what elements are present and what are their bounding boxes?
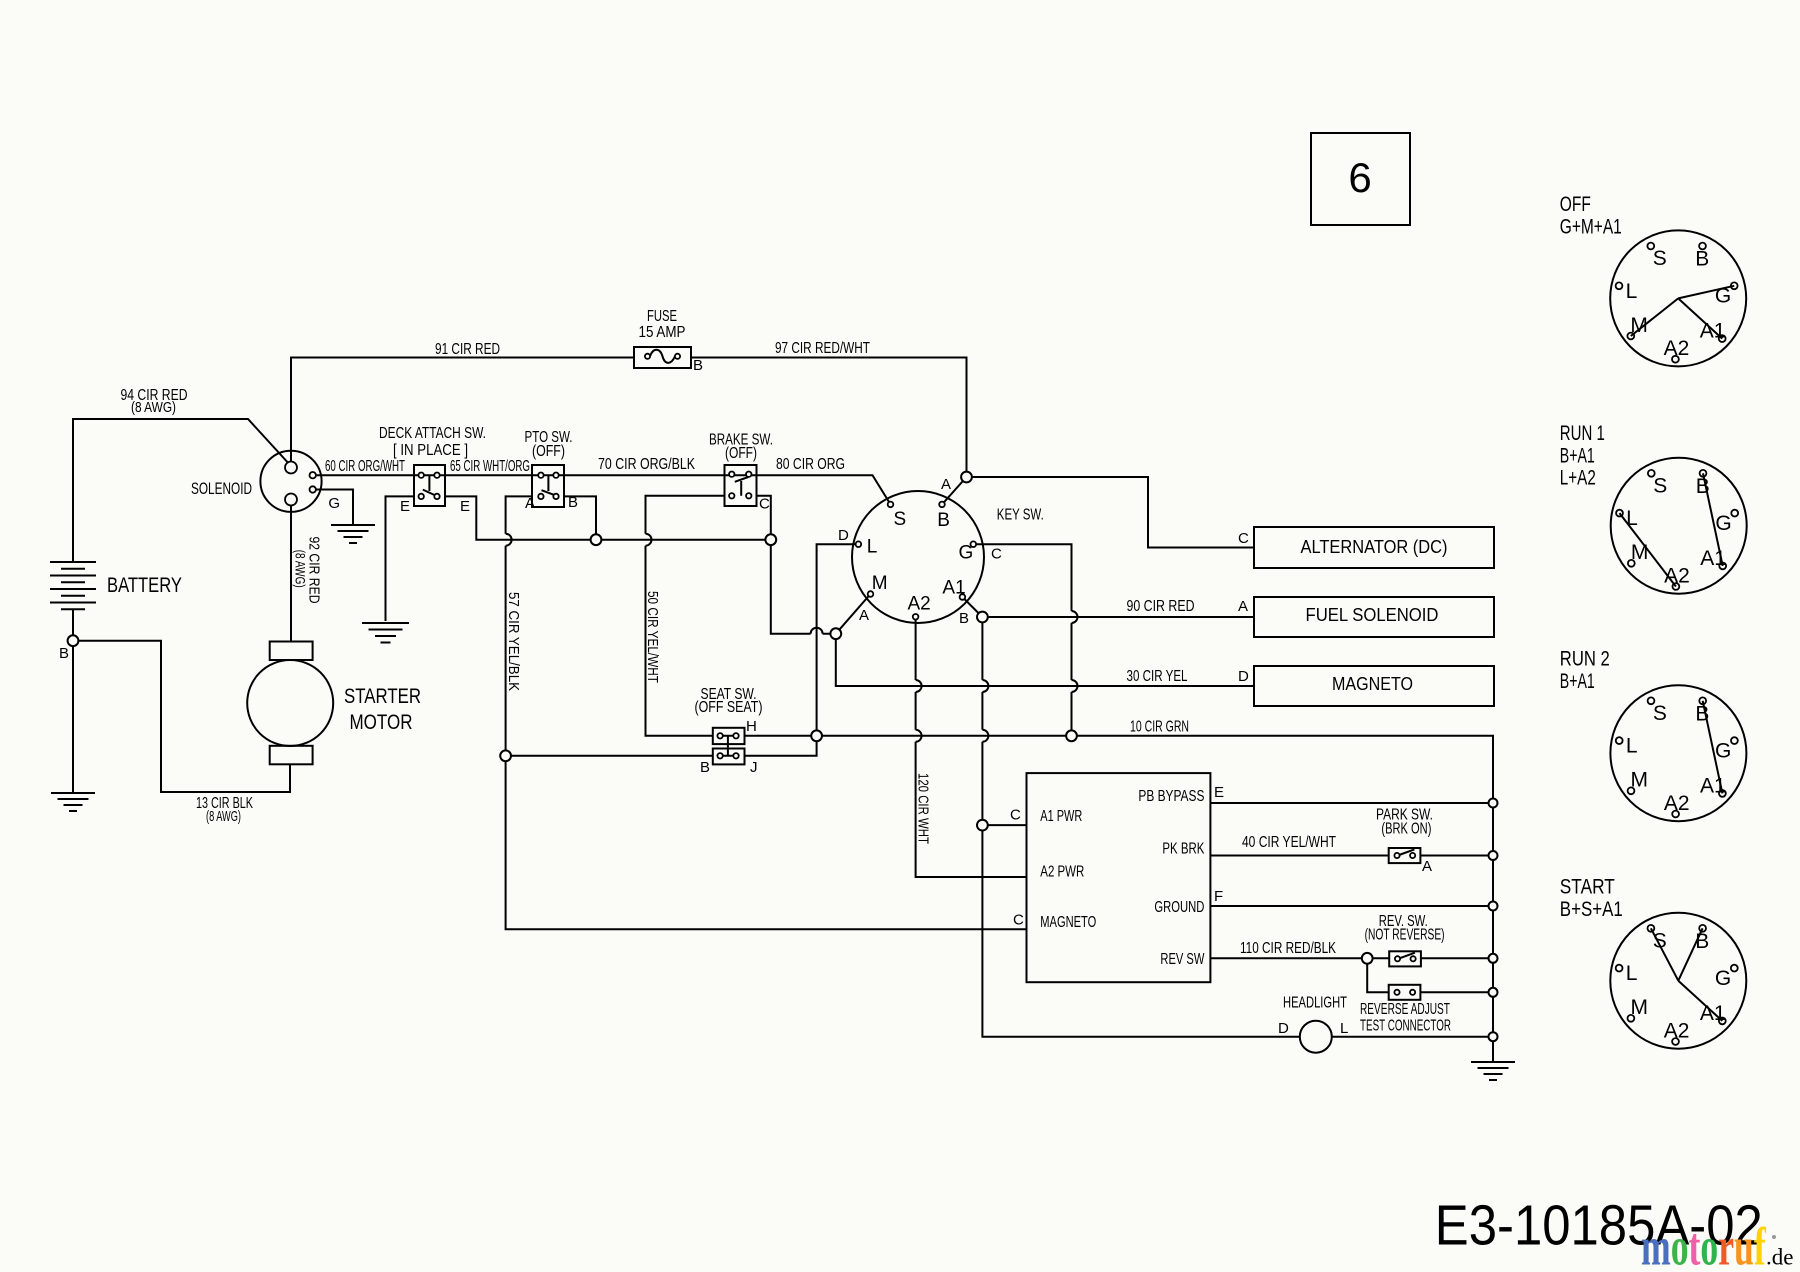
solenoid bbox=[260, 451, 321, 512]
svg-text:S: S bbox=[894, 509, 907, 530]
svg-text:FUSE: FUSE bbox=[647, 308, 677, 325]
wire main row 60/65/70/80 CIR to key S bbox=[313, 475, 891, 504]
svg-text:C: C bbox=[1238, 530, 1249, 547]
svg-text:L: L bbox=[867, 536, 878, 557]
svg-text:L: L bbox=[1626, 280, 1638, 303]
ground deck attach bbox=[362, 623, 409, 643]
svg-text:A: A bbox=[525, 495, 535, 512]
wire REV SW row / 110 CIR RED/BLK bbox=[1210, 957, 1389, 959]
ground solenoid G bbox=[331, 525, 375, 543]
wire solenoid G terminal to ground bbox=[313, 490, 353, 526]
svg-text:E: E bbox=[1214, 784, 1224, 801]
svg-text:A2: A2 bbox=[1664, 337, 1690, 360]
svg-text:motoruf: motoruf bbox=[1641, 1216, 1766, 1272]
key position OFF bbox=[1610, 230, 1746, 366]
fuse F1 15 AMP bbox=[634, 347, 691, 368]
svg-text:10 CIR GRN: 10 CIR GRN bbox=[1130, 719, 1189, 736]
wire key B to node A bbox=[942, 477, 967, 504]
svg-text:A1 PWR: A1 PWR bbox=[1040, 808, 1082, 825]
svg-text:A2: A2 bbox=[1664, 1019, 1690, 1042]
wire PK BRK row / 40 CIR YEL/WHT bbox=[1210, 855, 1388, 857]
wire deck attach E2 down to E-row bbox=[445, 496, 771, 539]
wire GROUND F row bbox=[1210, 905, 1493, 907]
svg-text:15 AMP: 15 AMP bbox=[639, 324, 686, 341]
wire key A2 / 120 CIR WHT to A2 PWR bbox=[916, 620, 1027, 878]
solenoid output terminals bbox=[310, 472, 316, 478]
node rev sw junction bbox=[1362, 953, 1373, 964]
svg-text:S: S bbox=[1653, 702, 1667, 725]
svg-text:120 CIR WHT: 120 CIR WHT bbox=[915, 773, 932, 844]
svg-text:MAGNETO: MAGNETO bbox=[1040, 914, 1096, 931]
svg-text:ALTERNATOR (DC): ALTERNATOR (DC) bbox=[1301, 537, 1448, 557]
svg-text:L+A2: L+A2 bbox=[1560, 467, 1596, 490]
svg-text:40 CIR YEL/WHT: 40 CIR YEL/WHT bbox=[1242, 834, 1336, 851]
svg-text:G: G bbox=[328, 495, 340, 512]
deck attach switch bbox=[414, 465, 445, 506]
svg-text:J: J bbox=[750, 759, 758, 776]
key position RUN 1 bbox=[1611, 458, 1747, 594]
svg-text:MOTOR: MOTOR bbox=[350, 711, 413, 734]
park switch bbox=[1389, 848, 1421, 863]
svg-text:RUN 1: RUN 1 bbox=[1560, 422, 1605, 445]
svg-text:REVERSE ADJUST: REVERSE ADJUST bbox=[1360, 1001, 1450, 1018]
svg-text:B: B bbox=[59, 645, 69, 662]
svg-text:90 CIR RED: 90 CIR RED bbox=[1127, 598, 1195, 615]
svg-text:L: L bbox=[1626, 962, 1638, 985]
svg-text:A2 PWR: A2 PWR bbox=[1040, 864, 1084, 881]
wire battery ground drop bbox=[72, 641, 74, 793]
svg-text:PK BRK: PK BRK bbox=[1162, 841, 1204, 858]
starter motor bbox=[270, 642, 313, 661]
wire A1 down to connector and headlight bbox=[982, 617, 1299, 1037]
svg-text:A: A bbox=[941, 476, 951, 493]
wire node A to alternator C bbox=[967, 477, 1255, 548]
wire seat B row bbox=[506, 755, 713, 757]
svg-text:M: M bbox=[1631, 541, 1649, 564]
page number box bbox=[1311, 133, 1410, 225]
svg-text:STARTER: STARTER bbox=[344, 685, 421, 708]
wire key L / D wire down to GRN bbox=[817, 544, 859, 736]
svg-text:TEST CONNECTOR: TEST CONNECTOR bbox=[1360, 1017, 1451, 1034]
svg-text:S: S bbox=[1653, 475, 1667, 498]
svg-text:C: C bbox=[1010, 807, 1021, 824]
node M junction bbox=[830, 628, 841, 639]
alternator box bbox=[1254, 527, 1494, 568]
svg-text:A: A bbox=[1422, 858, 1432, 875]
svg-text:(OFF): (OFF) bbox=[532, 443, 565, 460]
svg-text:D: D bbox=[1238, 668, 1249, 685]
svg-text:A2: A2 bbox=[1664, 792, 1690, 815]
svg-text:L: L bbox=[1626, 735, 1638, 758]
bus connector rings bbox=[1489, 799, 1498, 808]
wire PB BYPASS row bbox=[1210, 802, 1493, 804]
svg-text:(8 AWG): (8 AWG) bbox=[293, 550, 309, 588]
battery BT1 bbox=[50, 562, 96, 609]
svg-text:.de: .de bbox=[1766, 1244, 1793, 1269]
node A junction bbox=[961, 472, 972, 483]
wire key A1 diagonal to node bbox=[962, 597, 982, 617]
node GRN / L junction bbox=[811, 730, 822, 741]
svg-text:FUEL SOLENOID: FUEL SOLENOID bbox=[1306, 605, 1439, 625]
svg-text:(8 AWG): (8 AWG) bbox=[131, 399, 176, 416]
brake switch bbox=[725, 465, 757, 506]
svg-text:D: D bbox=[1278, 1020, 1289, 1037]
svg-text:B+A1: B+A1 bbox=[1560, 670, 1595, 693]
svg-text:57 CIR YEL/BLK: 57 CIR YEL/BLK bbox=[505, 592, 522, 691]
seat switch bbox=[713, 728, 745, 744]
svg-text:M: M bbox=[1630, 996, 1648, 1019]
node PTO B junction bbox=[591, 534, 602, 545]
svg-text:B+S+A1: B+S+A1 bbox=[1560, 898, 1623, 921]
svg-text:G: G bbox=[959, 543, 974, 564]
svg-text:A2: A2 bbox=[908, 594, 931, 615]
svg-text:PB BYPASS: PB BYPASS bbox=[1138, 788, 1204, 805]
wire 10 CIR GRN row to right bus bbox=[745, 736, 1494, 1062]
wire reverse adjust drop bbox=[1367, 958, 1389, 992]
svg-text:65 CIR WHT/ORG: 65 CIR WHT/ORG bbox=[450, 458, 530, 475]
svg-text:30 CIR YEL: 30 CIR YEL bbox=[1127, 668, 1188, 685]
svg-text:G+M+A1: G+M+A1 bbox=[1560, 215, 1622, 238]
svg-text:REV SW: REV SW bbox=[1160, 951, 1205, 968]
wire 91 CIR RED solenoid to fuse bbox=[291, 358, 634, 463]
svg-text:6: 6 bbox=[1348, 154, 1371, 201]
ground right bus bbox=[1471, 1062, 1515, 1080]
wire headlight right to bus bbox=[1332, 1036, 1493, 1038]
svg-text:50 CIR YEL/WHT: 50 CIR YEL/WHT bbox=[644, 591, 661, 683]
svg-text:A: A bbox=[859, 607, 869, 624]
wire 94 CIR RED from battery to solenoid bbox=[73, 419, 291, 562]
wire battery minus to node B bbox=[72, 609, 74, 641]
wire 92 CIR RED solenoid to starter bbox=[290, 506, 292, 642]
svg-text:C: C bbox=[759, 496, 770, 513]
key position RUN 2 bbox=[1610, 685, 1746, 821]
svg-text:M: M bbox=[1631, 769, 1649, 792]
svg-text:OFF: OFF bbox=[1560, 193, 1591, 216]
reverse adjust test connector bbox=[1389, 985, 1421, 1000]
svg-text:B: B bbox=[693, 357, 703, 374]
svg-text:(OFF SEAT): (OFF SEAT) bbox=[695, 699, 763, 716]
interlock module box bbox=[1027, 773, 1211, 982]
svg-text:(NOT REVERSE): (NOT REVERSE) bbox=[1365, 927, 1445, 944]
svg-text:G: G bbox=[1715, 967, 1731, 990]
node 90 CIR RED junction bbox=[977, 612, 988, 623]
node brake C junction bbox=[765, 534, 776, 545]
headlight lamp bbox=[1300, 1021, 1332, 1053]
wire deck attach E to ground bbox=[386, 496, 415, 621]
svg-text:MAGNETO: MAGNETO bbox=[1332, 674, 1413, 694]
svg-text:L: L bbox=[1626, 507, 1638, 530]
key switch bbox=[852, 491, 984, 623]
fuel solenoid box bbox=[1254, 597, 1494, 637]
svg-text:80 CIR ORG: 80 CIR ORG bbox=[776, 456, 845, 473]
wire 30 CIR YEL to magneto bbox=[836, 634, 1254, 686]
svg-text:HEADLIGHT: HEADLIGHT bbox=[1283, 995, 1347, 1012]
svg-text:E: E bbox=[460, 498, 470, 515]
wire key G to 10 CIR GRN bbox=[976, 544, 1072, 736]
svg-text:B: B bbox=[1695, 248, 1709, 271]
rev switch bbox=[1389, 951, 1421, 966]
key position START bbox=[1610, 913, 1746, 1049]
magneto box bbox=[1254, 666, 1494, 706]
svg-text:[ IN PLACE ]: [ IN PLACE ] bbox=[393, 442, 468, 459]
wire seat J riser bbox=[745, 736, 817, 756]
svg-text:M: M bbox=[872, 573, 888, 594]
svg-text:RUN 2: RUN 2 bbox=[1560, 648, 1610, 671]
svg-text:GROUND: GROUND bbox=[1154, 899, 1204, 916]
wire PTO A / 57 CIR YEL/BLK bbox=[506, 496, 1027, 929]
svg-text:BATTERY: BATTERY bbox=[107, 574, 182, 597]
wire 97 CIR RED/WHT fuse to node A bbox=[691, 358, 967, 478]
svg-text:SOLENOID: SOLENOID bbox=[191, 479, 252, 498]
svg-text:H: H bbox=[746, 718, 757, 735]
wire 13 CIR BLK battery to starter bbox=[73, 641, 290, 792]
svg-text:KEY SW.: KEY SW. bbox=[997, 507, 1044, 524]
svg-text:L: L bbox=[1340, 1020, 1348, 1037]
svg-text:S: S bbox=[1653, 930, 1667, 953]
svg-text:G: G bbox=[1715, 739, 1731, 762]
wire E-row down to M row bbox=[771, 540, 836, 634]
svg-text:A: A bbox=[1238, 598, 1248, 615]
svg-text:C: C bbox=[991, 546, 1002, 563]
svg-text:(8 AWG): (8 AWG) bbox=[206, 808, 241, 825]
wire brake C drop to node bbox=[757, 496, 771, 540]
svg-text:S: S bbox=[1653, 247, 1667, 270]
wire 90 CIR RED to fuel solenoid bbox=[982, 616, 1254, 618]
node seat B junction bbox=[500, 750, 511, 761]
wire A1 PWR stub bbox=[982, 824, 1026, 826]
svg-text:D: D bbox=[838, 527, 849, 544]
wire brake A / 50 CIR YEL/WHT to seat switch bbox=[646, 496, 725, 736]
wire key M diagonal bbox=[836, 594, 871, 634]
svg-text:B: B bbox=[959, 610, 969, 627]
svg-text:B: B bbox=[700, 759, 710, 776]
node B battery junction bbox=[68, 635, 79, 646]
PTO switch bbox=[532, 465, 564, 507]
svg-text:C: C bbox=[1013, 911, 1024, 928]
svg-text:97 CIR RED/WHT: 97 CIR RED/WHT bbox=[775, 340, 870, 357]
watermark motoruf.de bbox=[1641, 1216, 1766, 1272]
svg-text:START: START bbox=[1560, 876, 1615, 899]
ground battery bbox=[51, 793, 95, 811]
wire PTO B drop to node bbox=[564, 496, 596, 539]
svg-text:G: G bbox=[1715, 512, 1731, 535]
node GRN / G junction bbox=[1066, 730, 1077, 741]
svg-text:(BRK ON): (BRK ON) bbox=[1381, 821, 1431, 838]
svg-text:60 CIR ORG/WHT: 60 CIR ORG/WHT bbox=[325, 458, 405, 475]
svg-text:DECK ATTACH SW.: DECK ATTACH SW. bbox=[379, 425, 486, 442]
node A1 PWR junction bbox=[977, 820, 988, 831]
svg-text:(OFF): (OFF) bbox=[725, 445, 757, 462]
svg-text:70 CIR ORG/BLK: 70 CIR ORG/BLK bbox=[598, 456, 695, 473]
svg-text:B+A1: B+A1 bbox=[1560, 444, 1595, 467]
svg-text:E: E bbox=[400, 498, 410, 515]
svg-text:91 CIR RED: 91 CIR RED bbox=[435, 341, 500, 358]
svg-text:F: F bbox=[1214, 888, 1223, 905]
svg-text:B: B bbox=[937, 510, 950, 531]
svg-text:110 CIR RED/BLK: 110 CIR RED/BLK bbox=[1240, 940, 1336, 957]
svg-text:A1: A1 bbox=[942, 577, 965, 598]
